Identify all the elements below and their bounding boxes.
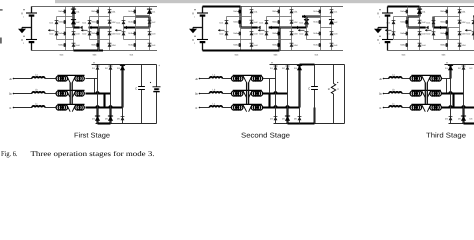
wire stage3 leg1 diode column (419, 7, 421, 51)
wire stage1 transformer top bar c (58, 103, 85, 105)
diode stage3 rect top D1 (445, 65, 453, 70)
wire stage1 row b link (45, 93, 57, 95)
wire stage2 transformer top bar c (233, 103, 262, 105)
node stage1 input c (10, 106, 15, 110)
inductor La stage2 (210, 73, 223, 78)
diode D235 (300, 21, 309, 25)
svg-text:V: V (337, 88, 339, 91)
diode D322 (458, 20, 467, 24)
wire stage1 rectifier negative bus (96, 123, 157, 125)
wire stage3 rectifier leg a (450, 65, 452, 124)
node stage1 input a (10, 77, 15, 81)
transformer stage3 secondary winding c (430, 105, 442, 110)
diode D222 (290, 20, 299, 24)
wire stage1 leg2 conducting path (74, 49, 104, 51)
node stage2 leg2 clamp arrow (258, 29, 265, 32)
wire stage1 rectifier conducting path (94, 79, 96, 94)
diode stage3 rect top D3 label (470, 67, 474, 70)
diode stage2 rect bottom D4 (270, 117, 278, 121)
diode D234 (330, 43, 339, 47)
diode D223 (290, 32, 299, 36)
wire stage2 row c link (222, 107, 232, 109)
wire stage1 bottom rail (32, 50, 158, 52)
diode D113 (72, 32, 81, 36)
node stage3 leg2 gate label (442, 53, 447, 56)
transformer stage3 secondary winding a (430, 76, 442, 81)
node stage3 leg1 output (420, 26, 429, 29)
wire stage3 rectifier conducting path (464, 122, 474, 124)
wire stage3 leg1 clamp branch (394, 17, 408, 40)
wire stage2 transformer top bar a (233, 74, 262, 76)
wire stage2 row b out (263, 92, 288, 93)
svg-text:C: C (308, 87, 310, 91)
label Second Stage (241, 131, 290, 139)
wire stage3 rectifier conducting path (449, 65, 451, 79)
wire stage3 row a link (402, 78, 411, 80)
node stage3 input c (380, 106, 385, 110)
wire stage1 row a in (14, 78, 33, 80)
diode D211 (250, 10, 259, 14)
wire stage1 row c out (86, 106, 123, 107)
node stage2 leg3 clamp arrow (298, 29, 305, 32)
diode D236 (300, 32, 309, 36)
svg-text:R: R (328, 87, 330, 91)
node stage2 input c (196, 106, 201, 110)
transformer stage2 secondary winding a (251, 76, 263, 81)
wire stage1 rectifier conducting path (103, 94, 105, 108)
transistor S232 (313, 20, 320, 24)
diode stage2 rect top D2 (282, 66, 290, 70)
inductor La stage1 (32, 73, 45, 78)
transistor S112 (58, 20, 65, 24)
svg-text:C: C (135, 87, 137, 91)
wire stage2 row a link (222, 78, 232, 80)
diode D126 (83, 32, 92, 36)
wire stage2 leg3 conducting path (304, 20, 309, 25)
battery VH1 (377, 9, 393, 19)
diode D336 (467, 32, 474, 36)
wire stage3 row a out (442, 78, 451, 80)
caption text (31, 150, 155, 158)
diode D324 (458, 43, 467, 47)
transistor S231 (313, 10, 320, 14)
wire stage1 leg1 clamp branch (57, 17, 66, 40)
wire stage2 leg3 clamp branch (307, 17, 321, 40)
transformer stage1 primary winding b (56, 91, 67, 96)
wire stage2 leg2 conducting path (203, 49, 280, 51)
wire stage1 leg3 conducting path (148, 17, 150, 28)
wire stage1 rectifier conducting path (98, 122, 111, 124)
wire stage1 leg2 conducting path (97, 28, 99, 51)
svg-text:First Stage: First Stage (74, 131, 110, 139)
wire stage1 rectifier conducting path (109, 108, 111, 124)
label Third Stage (426, 131, 466, 139)
crop artifact left 2 (0, 38, 2, 44)
diode D233 (330, 32, 339, 36)
wire stage3 row a in (384, 78, 390, 80)
diode D325 (427, 21, 436, 25)
wire stage2 transformer top bar b (233, 89, 262, 91)
node stage1 dc plus mark (93, 61, 95, 65)
svg-text:+: + (93, 61, 95, 65)
wire stage1 leg2 clamp branch (90, 17, 99, 40)
node stage2 leg1 output (252, 26, 261, 29)
wire stage1 row b out (86, 92, 111, 93)
diode D135 (117, 21, 126, 25)
diode D232 (329, 20, 338, 25)
diode D134 (148, 43, 157, 47)
wire stage3 leg1 conducting path (408, 26, 420, 28)
wire stage3 row b in (384, 93, 390, 95)
inductor Lc stage2 (210, 102, 223, 107)
wire stage3 row c link (402, 107, 411, 109)
transformer stage2 primary winding b (231, 91, 243, 96)
wire stage2 row c in (200, 107, 210, 109)
diode D326 (427, 32, 436, 36)
diode D314 (418, 43, 427, 47)
diode stage1 rect top D3 (117, 65, 125, 70)
diode stage2 rect top D3 (294, 65, 302, 70)
transistor S212 (233, 20, 240, 24)
transistor S131 (128, 10, 135, 14)
wire stage3 leg2 clamp branch (434, 17, 448, 40)
wire stage2 rectifier conducting path (286, 108, 288, 124)
wire stage1 transformer top bar a (58, 74, 85, 76)
wire stage2 capacitor branch (314, 65, 316, 124)
wire stage3 leg1 conducting path (408, 15, 420, 17)
diode D111 (71, 9, 80, 14)
wire stage3 leg1 conducting path (388, 5, 420, 7)
transistor S323 (440, 32, 447, 36)
node stage1 leg2 gate label (93, 53, 98, 56)
inductor Lb stage2 (210, 88, 223, 93)
diode D225 (260, 21, 269, 25)
wire stage3 battery branch (387, 7, 389, 51)
wire stage1 leg1 conducting path (72, 7, 74, 28)
wire stage1 leg3 diode column (149, 7, 151, 51)
wire stage3 rectifier negative bus (449, 123, 474, 125)
wire stage3 leg1 switch column (407, 7, 409, 51)
svg-text:V: V (21, 12, 23, 16)
transistor S312 (400, 20, 407, 24)
wire stage3 leg1 conducting path (406, 17, 408, 28)
svg-text:V: V (377, 12, 379, 16)
wire stage3 leg2 conducting path (446, 28, 448, 40)
wire stage2 transformer funnel a (243, 76, 252, 83)
wire stage2 leg2 conducting path (278, 28, 280, 51)
diode D115 (50, 21, 59, 25)
node stage1 leg2 clamp arrow (81, 29, 88, 32)
diode stage2 rect bottom D6 (294, 117, 302, 121)
transistor S313 (400, 32, 407, 36)
transistor S134 (128, 43, 135, 47)
diode D231 (330, 10, 339, 14)
wire stage1 midpoint to ground (22, 28, 32, 29)
ground stage1 (18, 29, 26, 33)
node stage2 input b (196, 92, 201, 96)
transformer stage1 secondary winding c (75, 105, 84, 110)
diode D121 (108, 10, 117, 14)
diode stage3 rect bottom D4 (445, 117, 453, 121)
wire stage3 top rail (388, 6, 474, 8)
svg-text:b: b (196, 92, 198, 96)
wire stage3 transformer top bar b (412, 89, 441, 91)
wire stage3 leg2 switch column (447, 7, 449, 51)
wire stage2 row a in (200, 78, 210, 80)
diode D335 (467, 21, 474, 25)
transformer stage1 primary winding a (56, 76, 67, 81)
wire stage2 rectifier leg b (287, 65, 289, 124)
transistor S314 (400, 43, 407, 47)
diode D112 (71, 20, 80, 25)
diode stage2 rect top D1 (270, 66, 278, 70)
wire stage2 leg1 ties (241, 17, 252, 40)
wire stage2 leg3 conducting path (302, 15, 321, 19)
wire stage3 row b out (442, 92, 464, 93)
wire stage2 rectifier negative bus (274, 123, 345, 125)
crop artifact left 1 (0, 9, 3, 10)
transistor S324 (440, 43, 447, 47)
wire stage1 rectifier leg c (122, 65, 124, 124)
transformer stage3 primary winding c (410, 105, 422, 110)
wire stage1 leg3 conducting path (124, 26, 150, 30)
node stage3 leg1 clamp arrow (385, 29, 392, 32)
wire stage1 leg3 conducting path (136, 15, 150, 17)
wire stage2 rectifier conducting path (298, 65, 300, 108)
node stage1 leg1 clamp arrow (48, 29, 55, 32)
wire stage1 rectifier leg b (110, 65, 112, 124)
battery Vb load (150, 64, 161, 92)
wire stage1 top rail (32, 6, 158, 8)
diode D131 (147, 9, 156, 14)
node stage3 leg3 clamp arrow (465, 29, 472, 32)
wire stage1 leg2 diode column (109, 7, 111, 51)
svg-text:+: + (158, 64, 160, 68)
svg-text:Second Stage: Second Stage (241, 131, 290, 139)
wire stage2 rectifier conducting path (288, 123, 315, 125)
node stage2 leg2 output (269, 26, 280, 30)
svg-text:Fig. 6.: Fig. 6. (1, 150, 18, 158)
ground stage2 (189, 29, 197, 33)
inductor Lb stage3 (389, 88, 402, 93)
wire stage1 leg1 ties (66, 17, 74, 40)
diode D214 (250, 43, 259, 47)
wire stage2 rectifier conducting path (269, 79, 271, 94)
transistor S124 (91, 43, 98, 47)
svg-text:Third Stage: Third Stage (426, 131, 466, 139)
resistor R load stage2 (328, 82, 339, 94)
wire stage2 resistor branch (333, 65, 335, 124)
node stage2 leg2 gate label (274, 53, 279, 56)
diode D315 (387, 21, 396, 25)
wire stage2 bottom rail (203, 50, 344, 52)
inductor Lc stage3 (389, 102, 402, 107)
diode D125 (83, 21, 92, 25)
label First Stage (74, 131, 110, 139)
diode D124 (108, 43, 117, 47)
diode stage1 rect bottom D5 (105, 116, 113, 121)
capacitor C stage2 (308, 87, 318, 91)
wire stage2 rectifier leg c (299, 65, 301, 124)
wire stage2 transformer funnel b (243, 91, 252, 98)
wire stage3 row c out (442, 106, 474, 107)
wire stage3 rectifier conducting path (442, 93, 454, 95)
capacitor C stage1 (135, 87, 145, 91)
diode D136 (117, 32, 126, 36)
transistor S114 (58, 43, 65, 47)
svg-text:V: V (192, 12, 194, 16)
wire stage3 transformer interlink (425, 83, 427, 105)
battery VL2 (21, 36, 37, 45)
wire stage1 leg3 ties (136, 17, 150, 40)
node stage1 input b (10, 92, 15, 96)
node stage3 input a (380, 77, 385, 81)
transistor S214 (233, 43, 240, 47)
svg-text:+: + (446, 61, 448, 65)
transistor S132 (128, 20, 135, 24)
diode D213 (250, 32, 259, 36)
diode D321 (458, 10, 467, 14)
wire stage3 rectifier conducting path (462, 108, 464, 124)
wire stage3 rectifier conducting path (446, 79, 448, 94)
wire stage3 leg2 conducting path (434, 26, 448, 30)
wire stage1 rectifier positive bus (92, 64, 157, 66)
diode stage2 rect bottom D5 (282, 116, 290, 121)
transistor S322 (440, 20, 447, 24)
wire stage2 rectifier conducting path (268, 94, 270, 108)
transformer stage3 primary winding b (410, 91, 422, 96)
wire stage2 leg3 conducting path (305, 17, 307, 28)
wire stage2 rectifier conducting path (263, 93, 270, 95)
svg-text:a: a (10, 77, 12, 81)
wire stage1 capacitor branch (141, 65, 143, 124)
diode D212 (250, 20, 259, 24)
wire stage2 leg1 conducting path (241, 26, 252, 28)
wire stage3 midpoint to ground (378, 28, 388, 29)
svg-text:c: c (196, 106, 198, 110)
svg-text:V: V (21, 38, 23, 42)
wire stage2 leg2 ties (280, 17, 292, 40)
wire stage3 transformer funnel a (422, 76, 431, 83)
transistor S234 (313, 43, 320, 47)
wire stage2 rectifier leg a (275, 65, 277, 124)
battery VH2 (377, 36, 393, 45)
wire stage1 transformer funnel c (67, 105, 76, 112)
node stage2 leg1 clamp arrow (218, 29, 225, 32)
wire stage2 row c out (263, 106, 300, 107)
wire stage1 transformer funnel b (67, 91, 76, 98)
node stage3 input b (380, 92, 385, 96)
wire stage1 transformer funnel a (67, 76, 76, 83)
node stage3 leg2 clamp arrow (425, 29, 432, 32)
diode stage1 rect top D1 (92, 66, 100, 70)
diode D224 (290, 43, 299, 47)
wire stage3 transformer top bar c (412, 103, 441, 105)
wire stage3 leg3 conducting path (473, 15, 474, 17)
diode stage3 rect top D2 (458, 66, 466, 70)
diode stage1 rect top D2 (105, 66, 113, 70)
transistor S222 (272, 20, 279, 24)
wire stage1 leg2 switch column (98, 7, 100, 51)
wire stage1 transformer interlink (70, 83, 72, 105)
node stage3 dc plus mark (446, 61, 448, 65)
wire stage2 leg3 diode column (331, 7, 333, 51)
diode D311 (417, 9, 426, 14)
svg-text:V: V (192, 38, 194, 42)
battery VL1 (192, 9, 208, 19)
diode D316 (387, 32, 396, 36)
transformer stage1 secondary winding b (75, 91, 84, 96)
wire stage2 midpoint to ground (193, 28, 203, 29)
wire stage1 row c in (14, 107, 33, 109)
wire stage2 leg2 clamp branch (267, 17, 280, 40)
wire stage1 row a out (86, 78, 98, 80)
battery VL2 (192, 36, 208, 45)
transistor S133 (128, 32, 135, 36)
transistor S123 (91, 32, 98, 36)
svg-text:+: + (271, 61, 273, 65)
wire stage2 transformer interlink (247, 83, 249, 105)
diode D122 (108, 20, 117, 24)
wire stage3 rectifier leg b (463, 65, 465, 124)
transformer stage2 secondary winding c (251, 105, 263, 110)
wire stage1 leg1 switch column (65, 7, 67, 51)
svg-text:b: b (10, 92, 12, 96)
page top gray rule (55, 0, 474, 3)
wire stage3 transformer top bar a (412, 74, 441, 76)
wire stage2 transformer funnel c (243, 105, 252, 112)
wire stage1 rectifier conducting path (121, 65, 123, 108)
wire stage2 leg1 conducting path (239, 7, 241, 28)
wire stage1 leg2 conducting path (89, 26, 112, 30)
wire stage2 leg2 conducting path (280, 26, 307, 30)
transformer stage3 primary winding a (410, 76, 422, 81)
wire stage1 rectifier conducting path (96, 108, 98, 124)
wire stage1 rectifier conducting path (86, 93, 105, 95)
node stage3 leg1 gate label (402, 53, 407, 56)
diode D216 (220, 32, 229, 36)
inductor La stage3 (389, 73, 402, 78)
wire stage2 rectifier positive bus (270, 64, 345, 66)
diode stage1 rect bottom D6 (117, 117, 125, 121)
node stage1 leg1 gate label (60, 53, 65, 56)
transformer stage2 secondary winding b (251, 91, 263, 96)
transistor S224 (272, 43, 279, 47)
diode D312 (418, 20, 427, 24)
wire stage3 bottom rail (388, 50, 474, 52)
transistor S122 (91, 20, 98, 24)
inductor Lb stage1 (32, 88, 45, 93)
wire stage2 battery branch (202, 7, 204, 51)
wire stage2 top rail (203, 6, 344, 8)
transistor S221 (272, 10, 279, 14)
node stage2 dc plus mark (271, 61, 273, 65)
wire stage2 leg1 clamp branch (227, 17, 241, 40)
diode D221 (290, 10, 299, 14)
wire stage3 transformer funnel c (422, 105, 431, 112)
node stage2 leg1 gate label (235, 53, 240, 56)
wire stage1 transformer top bar b (58, 89, 85, 91)
diode D323 (458, 32, 467, 36)
diode stage3 rect bottom D5 (458, 116, 466, 121)
wire stage1 row a link (45, 78, 57, 80)
svg-text:a: a (380, 77, 382, 81)
diode D114 (72, 43, 81, 47)
diode D226 (260, 32, 269, 36)
wire stage3 row b link (402, 93, 411, 95)
diode D313 (418, 32, 427, 36)
diode D116 (50, 32, 59, 36)
